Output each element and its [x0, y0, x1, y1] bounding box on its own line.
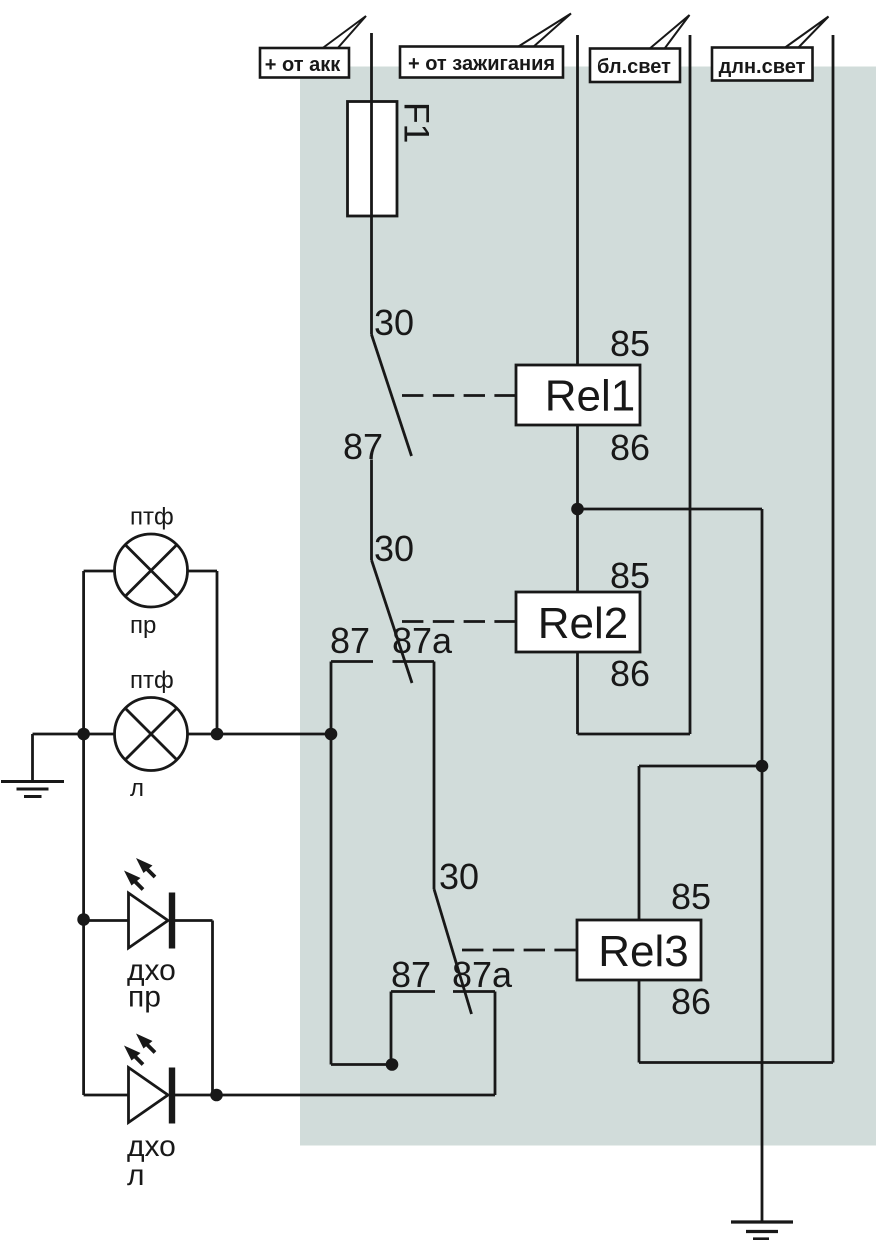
svg-text:30: 30 [374, 302, 414, 343]
svg-text:86: 86 [610, 653, 650, 694]
svg-text:30: 30 [439, 856, 479, 897]
svg-text:птф: птф [130, 667, 174, 694]
svg-text:86: 86 [671, 981, 711, 1022]
svg-text:87a: 87a [452, 954, 513, 995]
svg-text:87: 87 [330, 620, 370, 661]
svg-text:длн.свет: длн.свет [719, 56, 806, 78]
svg-text:85: 85 [610, 323, 650, 364]
svg-text:F1: F1 [397, 102, 437, 143]
svg-text:87: 87 [391, 954, 431, 995]
svg-text:Rel3: Rel3 [598, 927, 689, 976]
svg-text:л: л [127, 1159, 145, 1192]
svg-text:птф: птф [130, 504, 174, 531]
svg-text:Rel2: Rel2 [538, 599, 629, 648]
svg-text:л: л [130, 775, 144, 802]
svg-text:пр: пр [130, 612, 156, 639]
svg-text:пр: пр [128, 981, 161, 1014]
svg-text:85: 85 [610, 555, 650, 596]
svg-text:86: 86 [610, 427, 650, 468]
svg-text:+ от зажигания: + от зажигания [408, 53, 555, 75]
svg-text:30: 30 [374, 528, 414, 569]
svg-text:+ от акк: + от акк [265, 54, 341, 76]
svg-text:87: 87 [343, 426, 383, 467]
svg-text:бл.свет: бл.свет [597, 56, 671, 78]
svg-text:87a: 87a [392, 620, 453, 661]
svg-text:Rel1: Rel1 [545, 372, 636, 421]
svg-text:85: 85 [671, 876, 711, 917]
